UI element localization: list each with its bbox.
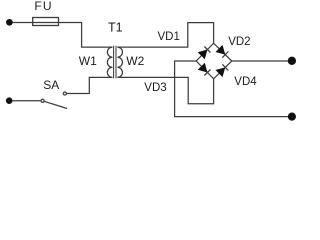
svg-text:SA: SA [43, 78, 59, 92]
svg-text:W1: W1 [79, 54, 97, 68]
wire W1 bottom to switch contact [67, 77, 113, 93]
wire input top to fuse and corner [13, 23, 113, 48]
diode VD3 [198, 63, 211, 76]
terminal output bottom [288, 113, 296, 121]
switch SA lever [44, 101, 67, 108]
wire bridge right (plus) to top output terminal [232, 60, 288, 62]
wire W2 top over bridge to top vertex [117, 23, 213, 47]
bridge diamond edges [196, 43, 232, 79]
terminal output top [288, 57, 296, 65]
winding W2 (secondary) [117, 47, 122, 77]
terminal input top-left [6, 19, 13, 26]
svg-text:VD3: VD3 [144, 82, 166, 94]
svg-text:VD1: VD1 [158, 31, 180, 43]
diode VD4 [216, 64, 229, 77]
switch SA right contact [63, 92, 66, 95]
fuse FU [33, 18, 59, 26]
switch SA pivot contact [41, 99, 44, 102]
svg-text:W2: W2 [126, 54, 144, 68]
winding W1 (primary) [107, 47, 112, 77]
diode VD1 [198, 47, 211, 60]
svg-text:VD2: VD2 [228, 36, 250, 48]
svg-text:FU: FU [34, 0, 52, 13]
wire bridge left (minus) to bottom output terminal [175, 61, 289, 117]
diode VD2 [216, 45, 229, 58]
wire W2 bottom under bridge to bottom vertex [117, 77, 213, 103]
terminal input bottom-left [6, 97, 13, 104]
svg-text:T1: T1 [108, 21, 123, 35]
wire input bottom to switch pivot [12, 100, 41, 102]
transformer core [113, 46, 115, 79]
svg-text:VD4: VD4 [234, 76, 257, 88]
